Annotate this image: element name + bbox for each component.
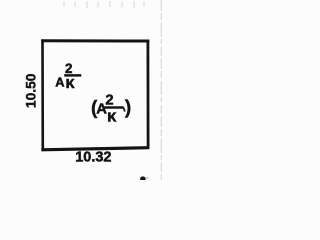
svg-text:κ: κ — [65, 74, 75, 92]
faint smudge right of blob — [146, 177, 149, 179]
svg-text:): ) — [125, 97, 131, 118]
formula 2: (A 2/k) (center-right inside square) — [91, 93, 131, 126]
square outline: top edge — [41, 39, 149, 42]
faint page-edge dashed vertical line — [160, 0, 162, 180]
svg-text:κ: κ — [107, 107, 117, 126]
dark blob at bottom edge (clipped character from next line) — [140, 176, 146, 181]
square outline: right edge — [146, 40, 149, 149]
svg-text:A: A — [55, 75, 64, 90]
square outline: bottom edge — [41, 148, 149, 150]
paper background — [0, 0, 180, 180]
faint cut-off text remnants at top — [63, 1, 145, 8]
square outline: left edge — [41, 39, 44, 150]
formula 1: A 2/k (upper-left inside square) — [55, 61, 81, 92]
svg-text:10.32: 10.32 — [75, 149, 111, 165]
svg-text:10.50: 10.50 — [24, 73, 39, 108]
